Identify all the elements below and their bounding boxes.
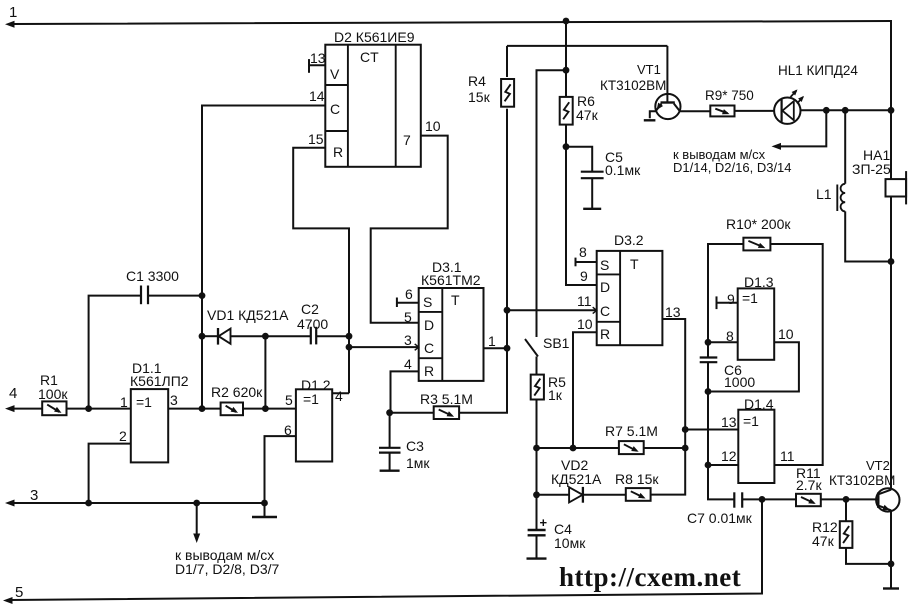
svg-text:К561ТМ2: К561ТМ2 <box>421 272 481 288</box>
svg-text:T: T <box>630 256 639 272</box>
svg-text:4: 4 <box>9 385 17 402</box>
svg-text:3: 3 <box>404 332 412 348</box>
svg-text:=1: =1 <box>743 413 759 429</box>
svg-text:8: 8 <box>579 244 587 260</box>
svg-text:R2 620к: R2 620к <box>211 384 263 400</box>
svg-text:10: 10 <box>577 316 593 332</box>
svg-text:S: S <box>423 294 432 310</box>
svg-text:9: 9 <box>727 291 735 307</box>
svg-text:T: T <box>451 292 460 308</box>
svg-text:14: 14 <box>309 88 325 104</box>
svg-text:D1.4: D1.4 <box>744 396 774 412</box>
svg-text:10мк: 10мк <box>554 535 586 551</box>
svg-text:1: 1 <box>488 333 496 349</box>
svg-text:VT1: VT1 <box>637 62 661 77</box>
svg-text:2.7к: 2.7к <box>796 477 822 493</box>
svg-text:R8 15к: R8 15к <box>615 471 659 487</box>
svg-text:D1.3: D1.3 <box>744 274 774 290</box>
svg-text:R9* 750: R9* 750 <box>705 88 754 103</box>
svg-text:D2 К561ИЕ9: D2 К561ИЕ9 <box>334 29 415 45</box>
svg-text:R: R <box>600 326 610 342</box>
svg-text:C: C <box>424 340 434 356</box>
svg-text:C: C <box>600 303 610 319</box>
svg-text:D: D <box>600 279 610 295</box>
svg-text:+: + <box>540 515 548 530</box>
svg-text:R7 5.1M: R7 5.1M <box>605 423 658 439</box>
svg-text:1: 1 <box>9 4 17 21</box>
svg-text:http://cxem.net: http://cxem.net <box>559 562 741 592</box>
svg-text:D1/14, D2/16, D3/14: D1/14, D2/16, D3/14 <box>673 160 792 175</box>
svg-text:1000: 1000 <box>724 374 755 390</box>
svg-text:10: 10 <box>778 326 794 342</box>
svg-text:L1: L1 <box>816 186 832 202</box>
svg-text:11: 11 <box>577 293 592 309</box>
svg-text:13: 13 <box>310 50 326 66</box>
svg-text:100к: 100к <box>38 386 68 402</box>
svg-text:R4: R4 <box>468 73 486 89</box>
svg-text:HL1 КИПД24: HL1 КИПД24 <box>778 63 858 78</box>
svg-text:4700: 4700 <box>297 316 328 332</box>
svg-text:CT: CT <box>360 49 379 65</box>
svg-text:1мк: 1мк <box>406 455 430 471</box>
svg-text:R10* 200к: R10* 200к <box>726 216 791 232</box>
svg-text:47к: 47к <box>812 533 835 549</box>
svg-text:КТ3102ВМ: КТ3102ВМ <box>829 473 895 488</box>
svg-text:S: S <box>600 257 609 273</box>
svg-text:3: 3 <box>170 392 178 408</box>
svg-text:5: 5 <box>404 309 412 325</box>
svg-text:C3: C3 <box>406 438 424 454</box>
svg-text:К561ЛП2: К561ЛП2 <box>130 373 189 389</box>
svg-text:SB1: SB1 <box>543 335 570 351</box>
svg-text:15: 15 <box>308 131 324 147</box>
svg-text:12: 12 <box>721 448 737 464</box>
svg-text:6: 6 <box>405 286 413 302</box>
svg-text:3: 3 <box>30 487 38 504</box>
svg-text:13: 13 <box>721 414 737 430</box>
svg-text:47к: 47к <box>576 107 599 123</box>
svg-text:КТ3102ВМ: КТ3102ВМ <box>600 78 666 93</box>
svg-text:4: 4 <box>404 356 412 372</box>
svg-text:9: 9 <box>580 268 588 284</box>
svg-text:5: 5 <box>285 392 293 408</box>
svg-text:VD1 КД521А: VD1 КД521А <box>207 307 289 323</box>
svg-text:0.1мк: 0.1мк <box>605 162 641 178</box>
svg-text:=1: =1 <box>303 391 319 407</box>
svg-text:R3 5.1M: R3 5.1M <box>420 391 473 407</box>
svg-text:КД521А: КД521А <box>551 471 602 487</box>
svg-text:2: 2 <box>119 428 127 444</box>
svg-text:ЗП-25: ЗП-25 <box>852 161 891 177</box>
svg-text:10: 10 <box>425 118 441 134</box>
svg-text:1к: 1к <box>548 387 563 403</box>
svg-text:5: 5 <box>15 584 23 601</box>
svg-text:D3.2: D3.2 <box>614 232 644 248</box>
svg-text:C7 0.01мк: C7 0.01мк <box>687 510 753 526</box>
svg-text:15к: 15к <box>468 89 491 105</box>
svg-text:R: R <box>424 363 434 379</box>
svg-text:D1/7, D2/8, D3/7: D1/7, D2/8, D3/7 <box>175 561 279 577</box>
svg-text:=1: =1 <box>136 394 152 410</box>
svg-text:11: 11 <box>780 448 795 464</box>
svg-text:7: 7 <box>403 132 411 148</box>
svg-text:1: 1 <box>120 394 128 410</box>
svg-text:D: D <box>424 317 434 333</box>
svg-text:C1 3300: C1 3300 <box>126 268 179 284</box>
svg-text:C: C <box>330 101 340 117</box>
svg-text:R: R <box>333 144 343 160</box>
svg-text:=1: =1 <box>742 290 758 306</box>
svg-text:13: 13 <box>665 304 681 320</box>
svg-text:C2: C2 <box>301 301 319 317</box>
svg-text:D1.2: D1.2 <box>301 377 331 393</box>
svg-text:VT2: VT2 <box>866 458 890 473</box>
svg-text:V: V <box>330 66 340 82</box>
svg-text:4: 4 <box>335 388 343 404</box>
